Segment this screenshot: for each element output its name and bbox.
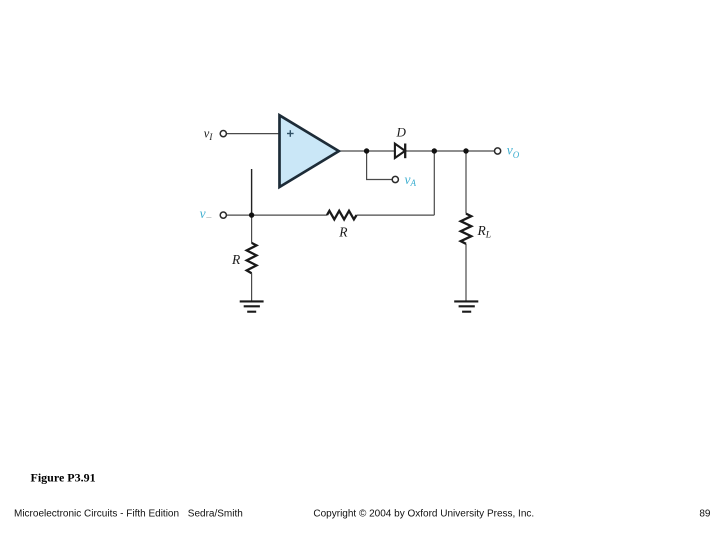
svg-text:R: R [231,252,241,267]
svg-text:R: R [338,225,348,240]
svg-text:Sedra/Smith: Sedra/Smith [188,509,243,520]
svg-text:Copyright © 2004 by Oxford Uni: Copyright © 2004 by Oxford University Pr… [313,509,534,520]
svg-text:Microelectronic Circuits - Fif: Microelectronic Circuits - Fifth Edition [14,509,179,520]
svg-text:D: D [396,124,407,139]
svg-text:89: 89 [699,509,711,520]
svg-text:Figure P3.91: Figure P3.91 [31,471,96,485]
